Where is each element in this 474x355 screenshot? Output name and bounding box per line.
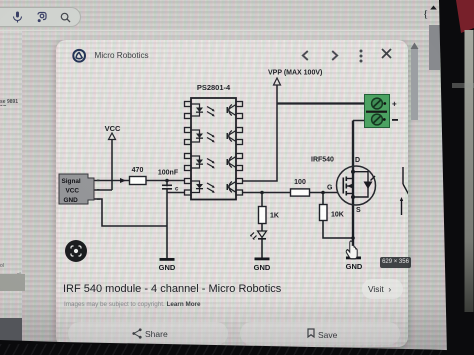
mosfet Q1 IRF540 <box>311 157 376 215</box>
small caret <box>430 5 437 10</box>
share icon <box>132 328 142 339</box>
node gate junction A <box>260 191 264 195</box>
visit pill <box>362 279 403 299</box>
switch S1 at image edge <box>400 167 409 215</box>
right scrollbar arrow <box>410 42 419 50</box>
left mid-dark thumbnail remnant <box>0 274 25 291</box>
svg-text:100: 100 <box>294 179 306 186</box>
light band above card <box>0 31 440 40</box>
connector J1 signal/vcc/gnd <box>59 174 100 204</box>
ground under led <box>254 258 271 273</box>
power VCC symbol <box>105 124 121 140</box>
tiny residual text left side <box>0 99 20 106</box>
search pill <box>0 7 81 27</box>
right scrollbar thumb <box>411 49 418 120</box>
svg-text:IRF540: IRF540 <box>311 157 334 164</box>
svg-text:GND: GND <box>346 262 363 271</box>
opto pins left <box>185 102 192 196</box>
size badge <box>380 257 411 268</box>
resistor 470 <box>130 177 147 185</box>
svg-text:S: S <box>356 207 361 214</box>
card header : logo <box>71 48 87 64</box>
resistor 100 <box>291 189 310 196</box>
copyright <box>64 301 201 308</box>
wire 1K to led <box>261 224 263 232</box>
led D1 <box>250 231 267 240</box>
wire VPP riser <box>276 85 278 104</box>
wire drain-source main <box>352 121 354 257</box>
wire VPP rail to terminal <box>277 102 365 104</box>
wire led to ground <box>261 240 263 258</box>
nav chevron right <box>330 49 340 62</box>
wire VPP down to opto pin 8 <box>243 104 278 182</box>
left light strip of underlying page <box>0 31 22 318</box>
node 10K junction <box>321 191 325 195</box>
svg-text:VCC: VCC <box>105 124 121 133</box>
resistor 10K <box>320 205 328 221</box>
touch cursor <box>346 241 357 259</box>
svg-text:Signal: Signal <box>62 178 81 185</box>
magnifier icon <box>60 12 71 23</box>
bezel highlight sliver <box>452 83 474 88</box>
lens icon <box>36 11 48 23</box>
wire vcc row <box>79 189 112 191</box>
wire signal row : connector to opto pin <box>79 180 185 182</box>
bezel reflection streaks <box>0 344 474 355</box>
svg-text:100nF: 100nF <box>158 170 179 177</box>
node cap junction <box>165 179 169 183</box>
opto pins right <box>236 102 243 196</box>
wire 10K branch down <box>322 193 324 205</box>
mic icon <box>12 11 23 23</box>
svg-text:PS2801-4: PS2801-4 <box>197 83 231 92</box>
svg-text:c: c <box>175 187 179 193</box>
wire capacitor to ground <box>166 181 168 259</box>
curly brace glyph <box>423 8 428 20</box>
save icon <box>307 328 315 338</box>
bottom-left dark block <box>0 318 22 355</box>
svg-text:VCC: VCC <box>66 188 80 195</box>
opto channel 3 led + phototransistor <box>191 156 236 169</box>
top browser band <box>0 0 440 31</box>
wire terminal minus to drain <box>353 120 365 122</box>
opto channel 2 led + phototransistor <box>191 130 236 143</box>
ground under source <box>346 257 363 272</box>
wire gnd row <box>79 199 167 226</box>
terminal block TB1 <box>365 95 399 128</box>
three dot menu <box>357 48 365 64</box>
wire opto emitter to gate <box>243 192 339 194</box>
ground under cap <box>159 258 176 272</box>
power VPP symbol <box>268 70 322 86</box>
svg-text:GND: GND <box>64 197 79 204</box>
divider line under header <box>0 30 440 31</box>
resistor 1K <box>259 207 267 224</box>
bottom bezel <box>0 335 474 355</box>
opto channel 4 led + phototransistor <box>191 181 236 193</box>
opto-coupler U1 PS2801-4 <box>191 83 236 200</box>
svg-text:GND: GND <box>159 263 176 272</box>
svg-text:D: D <box>355 157 360 164</box>
opto channel 1 led + phototransistor <box>191 104 236 117</box>
bottom lighting falloff <box>0 296 474 355</box>
capacitor 100nF <box>158 170 179 193</box>
svg-text:10K: 10K <box>331 212 344 219</box>
svg-text:GND: GND <box>254 263 271 272</box>
svg-text:470: 470 <box>132 167 144 174</box>
node source-10K junction <box>351 236 355 240</box>
svg-text:+: + <box>392 100 397 109</box>
right bezel <box>435 0 474 355</box>
node signal arrow <box>120 178 126 183</box>
overlay card <box>56 40 408 347</box>
wire 1K branch down <box>261 193 263 207</box>
close X <box>381 48 392 59</box>
save pill <box>240 322 400 345</box>
wire vcc riser <box>111 139 113 190</box>
footer title <box>63 283 281 295</box>
svg-text:VPP (MAX 100V): VPP (MAX 100V) <box>268 70 322 77</box>
far right gray bar <box>429 25 440 70</box>
wire 10K to source node <box>323 221 353 239</box>
nav chevron left <box>300 49 310 62</box>
wire opto cathode to cap node <box>167 192 185 194</box>
svg-text:1K: 1K <box>270 213 279 220</box>
google lens hover button <box>65 240 87 262</box>
svg-text:G: G <box>327 185 333 192</box>
share pill <box>68 322 228 345</box>
